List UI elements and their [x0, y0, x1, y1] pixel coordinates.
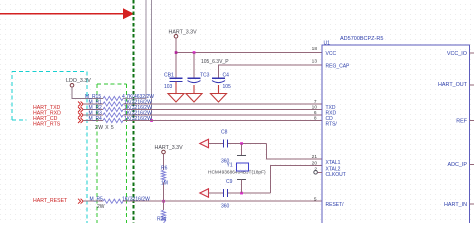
ground under CB1	[168, 82, 184, 102]
resistor M_R4	[89, 116, 153, 123]
capacitor TC3 (polarized)	[188, 77, 201, 79]
svg-text:HART_3.3V: HART_3.3V	[169, 30, 198, 36]
svg-text:7: 7	[314, 99, 317, 105]
pin ADC_IP (right)	[470, 164, 474, 166]
wire VCC rail to U1 pin 18	[176, 52, 322, 54]
pin HART_OUT (right)	[470, 84, 474, 86]
ground under C4	[211, 85, 227, 102]
junction crystal top	[240, 142, 243, 145]
svg-text:HART_RTS: HART_RTS	[33, 121, 61, 127]
dark green dashed region boundary	[133, 0, 135, 223]
wire RTS row	[83, 120, 103, 122]
wire CD row	[83, 114, 103, 116]
bright green dashed rectangle (resistor pack highlight)	[97, 84, 127, 223]
svg-text:RTS/: RTS/	[326, 121, 338, 127]
wire LDO to resistor M_R15	[72, 87, 103, 98]
pin REF (right)	[470, 120, 474, 122]
svg-text:2W X 5: 2W X 5	[95, 125, 114, 131]
resistor M_R2	[89, 105, 153, 112]
svg-text:C8: C8	[221, 130, 228, 136]
svg-text:1M: 1M	[161, 181, 168, 187]
svg-text:M_R5: M_R5	[90, 196, 104, 202]
junction VCC rail at TC3	[193, 51, 196, 54]
svg-text:CB1: CB1	[164, 72, 174, 78]
off-page arrow (C9 left)	[200, 189, 209, 198]
capacitor CB1	[170, 78, 183, 81]
wire HART_RESET row	[83, 200, 103, 202]
svg-text:HART_RESET: HART_RESET	[33, 198, 68, 204]
svg-text:1K(3216/2W: 1K(3216/2W	[124, 116, 152, 122]
svg-text:CLKOUT: CLKOUT	[326, 172, 346, 178]
cyan dashed selection boundary	[12, 72, 87, 224]
svg-text:REG_CAP: REG_CAP	[326, 63, 351, 69]
wire vertical net A to top (pull-up 4.7K)	[123, 0, 146, 99]
svg-text:TC3: TC3	[200, 72, 210, 78]
svg-text:LDO_3.3V: LDO_3.3V	[66, 78, 91, 84]
wire TXD row	[83, 103, 103, 105]
svg-text:M_R4: M_R4	[89, 116, 103, 122]
wire HART_3.3V down	[175, 38, 177, 78]
crystal Y1	[208, 144, 266, 194]
svg-text:ADC_IP: ADC_IP	[448, 162, 468, 168]
capacitor C8	[224, 139, 228, 147]
resistor R6 1M vertical	[161, 154, 168, 201]
power symbol HART_3.3V (R6)	[155, 145, 184, 154]
svg-text:U1: U1	[324, 40, 331, 46]
svg-text:6: 6	[314, 110, 317, 116]
svg-text:21: 21	[312, 154, 318, 160]
net HART_RTS chevron	[78, 118, 83, 123]
pin HART_IN (right)	[470, 203, 474, 205]
net HART_CD chevron	[78, 113, 83, 118]
wire TC3 stub	[193, 53, 195, 79]
resistor M_R3	[89, 110, 153, 117]
svg-text:R24: R24	[157, 217, 166, 223]
svg-text:XTAL1: XTAL1	[326, 160, 341, 166]
svg-text:VCC_IO: VCC_IO	[447, 51, 467, 57]
svg-text:103: 103	[164, 84, 173, 90]
svg-text:R6: R6	[161, 165, 168, 171]
svg-text:HART_OUT: HART_OUT	[438, 82, 468, 88]
svg-text:105_6.3V_P: 105_6.3V_P	[201, 59, 229, 65]
wire red off-page arrow line	[0, 8, 134, 19]
junction crystal bottom	[240, 192, 243, 195]
wire XTAL1 net	[209, 144, 323, 160]
resistor M_R15 4.7K	[85, 94, 154, 101]
svg-text:HART_IN: HART_IN	[444, 202, 467, 208]
op IC U1 AD5700BCPZ-R5 box	[322, 45, 470, 225]
net HART_RESET chevron	[78, 199, 83, 204]
svg-text:20: 20	[312, 161, 318, 167]
capacitor C4 (polarized)	[212, 77, 225, 79]
svg-text:13: 13	[312, 59, 318, 65]
svg-text:Y1: Y1	[227, 163, 233, 169]
net HART_TXD chevron	[78, 102, 83, 107]
ground under TC3	[186, 85, 202, 102]
svg-text:HART_3.3V: HART_3.3V	[155, 145, 184, 151]
off-page arrow (C8 left)	[200, 139, 209, 148]
svg-text:C9: C9	[226, 179, 233, 185]
svg-text:RESET/: RESET/	[326, 202, 345, 208]
svg-text:AD5700BCPZ-R5: AD5700BCPZ-R5	[340, 36, 383, 42]
junction R6 / HART_RESET	[162, 200, 165, 203]
junction on RTS wire	[150, 119, 153, 122]
svg-text:360: 360	[221, 203, 230, 209]
junction VCC rail at CB1	[175, 51, 178, 54]
wire RXD row	[83, 109, 103, 111]
svg-text:105: 105	[223, 84, 232, 90]
wire REG_CAP net 105_6.3V_P to U1 pin 13	[219, 65, 323, 78]
power symbol LDO_3.3V	[66, 78, 91, 87]
svg-text:2W: 2W	[97, 204, 105, 210]
resistor R24 (lead below)	[157, 201, 166, 223]
power symbol HART_3.3V (top)	[169, 30, 198, 39]
resistor M_R1	[89, 99, 153, 106]
svg-text:8: 8	[314, 116, 317, 122]
svg-text:REF: REF	[456, 119, 467, 125]
capacitor C9	[224, 189, 228, 197]
resistor M_R5	[90, 196, 151, 210]
svg-text:VCC: VCC	[326, 51, 337, 57]
pin VCC_IO (right)	[470, 52, 474, 54]
net HART_RXD chevron	[78, 107, 83, 112]
wire vertical net B to top (RTS pull)	[151, 0, 153, 121]
svg-text:10: 10	[312, 105, 318, 111]
svg-text:18: 18	[312, 46, 318, 52]
svg-text:5: 5	[314, 196, 317, 202]
svg-text:1K(3216/2W: 1K(3216/2W	[122, 196, 150, 202]
svg-text:C4: C4	[223, 72, 230, 78]
wire XTAL2 net	[209, 166, 323, 194]
